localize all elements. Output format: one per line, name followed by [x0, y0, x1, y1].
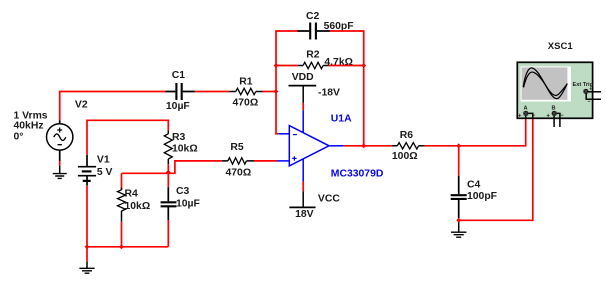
svg-text:0°: 0° — [14, 132, 24, 143]
value C1 — [166, 101, 190, 112]
pin A minus stub — [528, 113, 533, 118]
pin Ext Trig minus — [586, 94, 601, 100]
label R4 — [125, 189, 139, 200]
svg-text:R6: R6 — [400, 130, 414, 141]
svg-text:R4: R4 — [125, 189, 139, 200]
svg-text:−: − — [588, 99, 591, 105]
junction C4 bottom — [456, 218, 461, 223]
junction R2 right — [361, 63, 366, 68]
wire R3 bottom to junction — [167, 164, 169, 173]
junction C4 top — [456, 143, 461, 148]
svg-text:10kΩ: 10kΩ — [125, 201, 151, 212]
value C4 — [467, 191, 497, 202]
svg-text:B: B — [552, 105, 556, 111]
pin Ext Trig plus — [588, 91, 601, 93]
label R2 — [306, 50, 320, 61]
wire scope A minus path — [459, 118, 533, 220]
wire C4 top — [458, 146, 460, 176]
label VCC — [318, 194, 340, 205]
svg-text:470Ω: 470Ω — [233, 98, 259, 109]
terminal plus minus marks — [518, 87, 592, 120]
wire C3 top — [167, 173, 169, 187]
svg-text:R3: R3 — [172, 132, 186, 143]
AC source V2 — [47, 120, 73, 161]
svg-text:MC33079D: MC33079D — [331, 169, 384, 180]
label C1 — [172, 70, 186, 81]
label V1 — [97, 155, 110, 166]
resistor R4 — [118, 173, 126, 222]
resistor R2 — [298, 62, 329, 68]
pin B plus stub — [553, 116, 555, 127]
junction R2 left — [274, 63, 279, 68]
wire VCC pin red — [302, 181, 304, 191]
wire R5 to op-amp plus input — [254, 160, 277, 162]
wire V2 bottom to ground — [59, 161, 61, 166]
svg-text:5 V: 5 V — [97, 167, 113, 178]
svg-text:V1: V1 — [97, 155, 110, 166]
terminal A — [523, 111, 528, 116]
wire R2 row right — [329, 65, 364, 67]
svg-text:C4: C4 — [467, 180, 481, 191]
value R1 — [233, 98, 259, 109]
resistor R3 — [164, 131, 172, 165]
label R5 — [230, 142, 244, 153]
wire R4 top row — [122, 172, 169, 174]
svg-text:VCC: VCC — [318, 194, 340, 205]
ground below C4 — [451, 222, 466, 237]
label R1 — [239, 77, 253, 88]
svg-text:R1: R1 — [239, 77, 253, 88]
svg-text:470Ω: 470Ω — [226, 168, 252, 179]
value V1 — [97, 167, 113, 178]
label VDD — [292, 72, 314, 83]
capacitor C1 — [166, 83, 195, 100]
ground bottom left — [79, 262, 94, 274]
label XSC1 — [548, 41, 574, 52]
label R6 — [400, 130, 414, 141]
svg-text:−: − — [560, 113, 564, 119]
wire R6 to scope — [425, 118, 526, 145]
label C4 — [467, 180, 481, 191]
svg-text:A: A — [524, 105, 528, 111]
svg-text:18V: 18V — [295, 209, 314, 220]
svg-text:10µF: 10µF — [166, 101, 190, 112]
pin minus input stub — [278, 133, 289, 135]
pin A plus stub — [525, 116, 527, 119]
oscilloscope XSC1 — [517, 62, 592, 118]
svg-text:C2: C2 — [306, 11, 320, 22]
svg-text:C1: C1 — [172, 70, 186, 81]
wire node to R5 row step — [168, 161, 222, 173]
battery V1 — [78, 155, 96, 186]
label MC33079D — [331, 169, 384, 180]
wire feedback left vertical — [276, 31, 298, 134]
label C3 — [176, 186, 190, 197]
svg-text:10kΩ: 10kΩ — [172, 143, 198, 154]
scope trace B — [524, 72, 568, 95]
resistor R5 — [222, 158, 254, 164]
svg-text:R2: R2 — [306, 50, 320, 61]
op-amp U1A — [289, 126, 329, 166]
capacitor C3 — [161, 187, 177, 220]
wire V2 top to C1 row — [60, 92, 166, 121]
value R3 — [172, 143, 198, 154]
svg-text:100pF: 100pF — [467, 191, 497, 202]
svg-text:+: + — [546, 113, 550, 119]
wire VDD pin red — [302, 103, 304, 110]
wire V1 bottom — [86, 185, 88, 246]
value -18V — [318, 87, 340, 98]
scope trace A — [523, 68, 567, 99]
wire output row — [344, 145, 392, 147]
wire C3 bottom — [167, 220, 169, 247]
pin VDD blue — [302, 110, 304, 133]
svg-text:40kHz: 40kHz — [14, 121, 44, 132]
value R4 — [125, 201, 151, 212]
capacitor C4 — [451, 176, 467, 219]
terminal Ext Trig — [583, 89, 588, 94]
svg-text:100Ω: 100Ω — [392, 151, 418, 162]
value 18V — [295, 209, 314, 220]
VCC power symbol — [289, 191, 315, 207]
value C2 — [324, 21, 354, 32]
wire bottom rail — [87, 246, 168, 248]
wire R1 to node — [263, 91, 277, 93]
junction rail V1 — [85, 244, 90, 249]
svg-text:+: + — [589, 87, 592, 93]
terminal B — [552, 111, 557, 116]
pin plus input stub — [277, 160, 289, 162]
resistor R6 — [392, 143, 425, 149]
wire C1 to R1 — [195, 91, 229, 93]
label U1A — [331, 114, 352, 125]
svg-text:VDD: VDD — [292, 72, 314, 83]
svg-text:XSC1: XSC1 — [548, 41, 574, 52]
wire R2 row left — [276, 65, 298, 67]
resistor R1 — [229, 88, 262, 94]
svg-text:R5: R5 — [230, 142, 244, 153]
label Ext Trig — [573, 82, 594, 88]
wire R4 bottom — [121, 222, 123, 247]
junction R3 node — [166, 170, 171, 175]
VDD power symbol — [289, 86, 317, 103]
wire V1 loop to R3 — [87, 120, 168, 155]
svg-text:V2: V2 — [75, 100, 88, 111]
label C2 — [306, 11, 320, 22]
ground below V2 — [53, 166, 67, 179]
label A — [524, 105, 528, 111]
svg-text:U1A: U1A — [331, 114, 352, 125]
wire rail to ground — [86, 247, 88, 262]
wire C4 junction segment — [458, 218, 460, 222]
svg-text:C3: C3 — [176, 186, 190, 197]
junction rail R4 — [119, 244, 124, 249]
value C3 — [176, 199, 200, 210]
pin VCC blue — [302, 159, 304, 182]
label R3 — [172, 132, 186, 143]
value labels of V2 — [14, 111, 48, 143]
value R6 — [392, 151, 418, 162]
junction output feedback — [361, 143, 366, 148]
wire C2 to feedback right vertical — [330, 31, 364, 146]
value R5 — [226, 168, 252, 179]
pin B minus stub — [557, 113, 560, 127]
label B — [552, 105, 556, 111]
value R2 — [324, 57, 353, 68]
capacitor C2 — [298, 23, 330, 40]
pin output stub — [329, 145, 344, 147]
svg-text:+: + — [518, 113, 522, 119]
label V2 — [75, 100, 88, 111]
junction R1 node — [274, 89, 279, 94]
svg-text:-18V: -18V — [318, 87, 340, 98]
svg-text:10µF: 10µF — [176, 199, 200, 210]
